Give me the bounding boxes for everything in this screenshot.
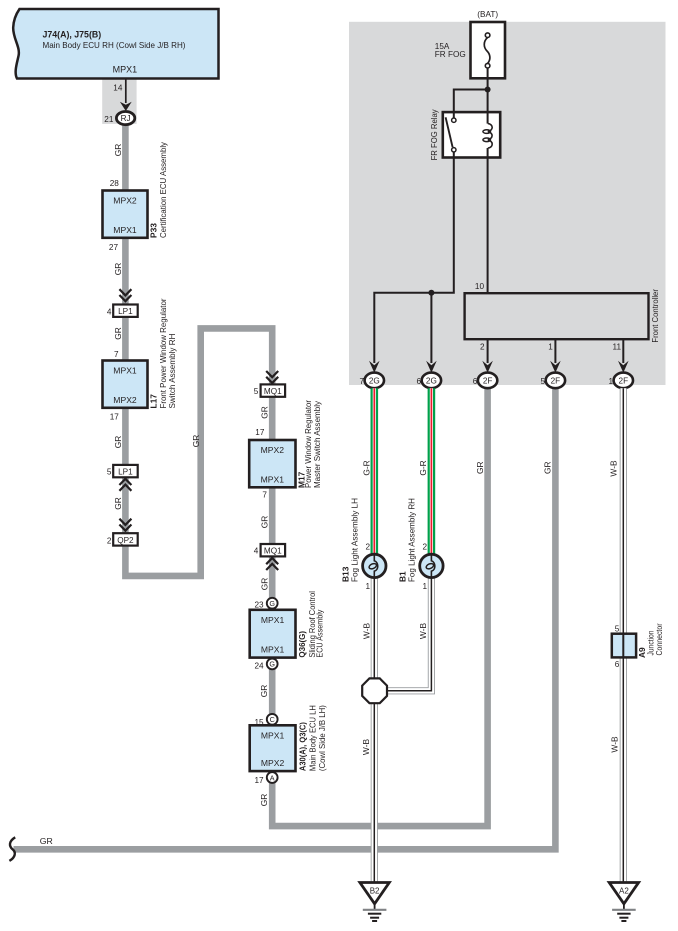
- svg-text:G: G: [269, 599, 275, 608]
- svg-text:A2: A2: [619, 887, 629, 896]
- svg-text:Fog Light Assembly LH: Fog Light Assembly LH: [349, 498, 359, 582]
- svg-text:6: 6: [473, 377, 478, 386]
- svg-text:17: 17: [255, 428, 265, 437]
- svg-text:1: 1: [423, 582, 428, 591]
- svg-text:J74(A), J75(B): J74(A), J75(B): [43, 29, 102, 39]
- svg-text:MPX2: MPX2: [113, 395, 137, 405]
- svg-text:GR: GR: [475, 461, 485, 474]
- svg-text:MPX1: MPX1: [261, 615, 285, 625]
- svg-text:RJ: RJ: [121, 114, 131, 123]
- svg-text:Q36(G): Q36(G): [298, 631, 307, 658]
- svg-text:L17: L17: [148, 394, 158, 409]
- svg-text:MPX1: MPX1: [261, 474, 285, 484]
- svg-text:W-B: W-B: [609, 460, 619, 477]
- svg-text:MPX2: MPX2: [261, 445, 285, 455]
- svg-text:Master Switch Assembly: Master Switch Assembly: [312, 400, 322, 488]
- svg-text:(BAT): (BAT): [477, 10, 498, 19]
- svg-text:2G: 2G: [426, 376, 437, 385]
- svg-text:2F: 2F: [483, 376, 493, 385]
- svg-text:W-B: W-B: [362, 623, 372, 640]
- svg-text:LP1: LP1: [118, 307, 133, 316]
- svg-text:11: 11: [613, 343, 622, 352]
- svg-text:W-B: W-B: [361, 739, 371, 756]
- svg-text:5: 5: [541, 377, 546, 386]
- svg-text:GR: GR: [191, 435, 201, 448]
- svg-text:21: 21: [104, 115, 114, 124]
- svg-text:2: 2: [365, 543, 370, 552]
- svg-text:17: 17: [254, 776, 264, 785]
- svg-text:GR: GR: [260, 516, 270, 529]
- svg-text:MPX1: MPX1: [113, 366, 137, 376]
- svg-text:Main Body ECU LH: Main Body ECU LH: [307, 705, 317, 771]
- svg-text:1: 1: [548, 343, 553, 352]
- svg-text:FR FOG Relay: FR FOG Relay: [429, 109, 439, 161]
- svg-text:MPX1: MPX1: [261, 731, 285, 741]
- svg-text:MPX1: MPX1: [113, 64, 138, 74]
- svg-text:5: 5: [107, 468, 112, 477]
- svg-text:A: A: [270, 773, 275, 782]
- svg-text:G-R: G-R: [418, 460, 428, 475]
- svg-text:6: 6: [417, 377, 422, 386]
- svg-text:Main Body ECU RH (Cowl Side J/: Main Body ECU RH (Cowl Side J/B RH): [43, 40, 186, 50]
- svg-text:Switch Assembly RH: Switch Assembly RH: [167, 334, 177, 409]
- svg-text:W-B: W-B: [418, 623, 428, 640]
- svg-text:4: 4: [107, 307, 112, 316]
- svg-text:GR: GR: [113, 497, 123, 510]
- svg-text:A30(A), Q3(C): A30(A), Q3(C): [298, 722, 307, 771]
- svg-text:2: 2: [107, 536, 112, 545]
- svg-text:2G: 2G: [369, 376, 380, 385]
- svg-text:GR: GR: [40, 836, 53, 846]
- svg-text:MQ1: MQ1: [264, 547, 282, 556]
- svg-text:27: 27: [109, 243, 119, 252]
- svg-text:FR FOG: FR FOG: [435, 50, 466, 59]
- svg-text:5: 5: [615, 625, 620, 634]
- svg-text:2: 2: [480, 343, 485, 352]
- svg-text:Certification ECU Assembly: Certification ECU Assembly: [158, 141, 168, 238]
- svg-text:GR: GR: [543, 461, 553, 474]
- svg-text:1: 1: [608, 377, 613, 386]
- svg-text:C: C: [270, 715, 275, 724]
- svg-text:MPX1: MPX1: [113, 225, 137, 235]
- svg-text:MPX1: MPX1: [261, 645, 285, 655]
- svg-text:10: 10: [475, 282, 485, 291]
- svg-text:23: 23: [254, 601, 264, 610]
- svg-text:GR: GR: [259, 685, 269, 698]
- svg-text:ECU Assembly: ECU Assembly: [315, 609, 325, 658]
- svg-text:Fog Light Assembly RH: Fog Light Assembly RH: [406, 498, 416, 582]
- svg-text:6: 6: [615, 660, 620, 669]
- svg-text:QP2: QP2: [117, 536, 134, 545]
- svg-text:(Cowl Side J/B LH): (Cowl Side J/B LH): [317, 705, 327, 771]
- svg-text:1: 1: [365, 582, 370, 591]
- svg-text:GR: GR: [113, 436, 123, 449]
- svg-text:Front Controller: Front Controller: [650, 289, 660, 343]
- svg-text:GR: GR: [260, 406, 270, 419]
- svg-text:MQ1: MQ1: [264, 387, 282, 396]
- svg-text:4: 4: [254, 547, 259, 556]
- svg-text:7: 7: [114, 350, 119, 359]
- svg-text:14: 14: [113, 83, 123, 92]
- svg-text:Connector: Connector: [654, 623, 664, 655]
- svg-text:2F: 2F: [619, 376, 629, 385]
- svg-text:G-R: G-R: [362, 460, 372, 475]
- svg-text:2F: 2F: [551, 376, 561, 385]
- svg-text:GR: GR: [259, 794, 269, 807]
- svg-text:7: 7: [262, 491, 267, 500]
- svg-text:W-B: W-B: [610, 736, 620, 753]
- svg-text:24: 24: [254, 661, 264, 670]
- svg-text:2: 2: [423, 543, 428, 552]
- svg-text:17: 17: [110, 413, 120, 422]
- svg-text:LP1: LP1: [118, 468, 133, 477]
- svg-text:B2: B2: [370, 887, 380, 896]
- svg-text:GR: GR: [113, 144, 123, 157]
- svg-text:7: 7: [359, 377, 364, 386]
- svg-text:GR: GR: [113, 263, 123, 276]
- svg-text:5: 5: [254, 387, 259, 396]
- svg-text:GR: GR: [260, 578, 270, 591]
- svg-text:MPX2: MPX2: [261, 758, 285, 768]
- svg-text:G: G: [269, 660, 275, 669]
- svg-text:P33: P33: [149, 223, 159, 238]
- svg-text:MPX2: MPX2: [113, 196, 137, 206]
- svg-text:GR: GR: [113, 327, 123, 340]
- svg-text:28: 28: [110, 179, 120, 188]
